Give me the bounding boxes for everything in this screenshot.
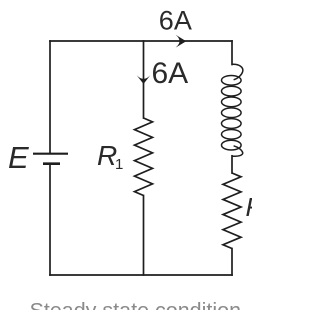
wire middle upper (top node to R1) [143, 41, 145, 118]
current arrow 6A on top wire [176, 35, 187, 48]
svg-text:Steady state condition: Steady state condition [30, 298, 242, 310]
svg-text:R: R [246, 192, 253, 222]
wire right upper (top node to inductor) [231, 41, 233, 65]
wire bottom horizontal [50, 274, 232, 276]
current arrow 6A on middle wire [137, 75, 151, 84]
resistor R2 [223, 173, 241, 249]
svg-text:6A: 6A [152, 57, 189, 90]
wire left upper (node to battery) [49, 41, 51, 153]
svg-text:6A: 6A [159, 5, 192, 35]
wire top horizontal [50, 40, 232, 42]
inductor L [222, 64, 243, 156]
svg-text:E: E [8, 140, 29, 175]
wire right lower (R2 to bottom) [231, 249, 233, 276]
wire middle lower (R1 to bottom) [143, 196, 145, 276]
battery E [33, 154, 68, 164]
svg-text:1: 1 [115, 156, 123, 173]
resistor R1 [135, 118, 153, 196]
wire right middle (inductor to R2) [231, 156, 233, 173]
wire left lower (battery to bottom) [49, 164, 51, 275]
